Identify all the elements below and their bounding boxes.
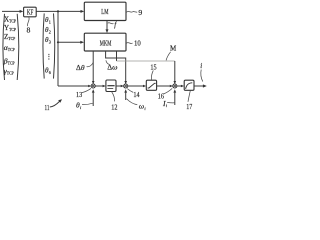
input pose vector (X,Y,Z,alpha,beta,gamma)_TCP [3, 14, 19, 80]
wire: 15 to summing 16 [157, 85, 173, 88]
junction dot MKM branch [57, 41, 59, 43]
svg-text:M: M [170, 44, 177, 52]
leader tilde to label 9 [127, 10, 138, 13]
wire: MKM delta-omega output to summing 14 [106, 51, 127, 84]
wire: 16 to controller 17 [177, 85, 184, 88]
svg-text:⋮: ⋮ [45, 53, 52, 61]
wire: 14 to controller 15 [128, 85, 147, 88]
svg-text:8: 8 [27, 26, 31, 35]
leader to label 17 [188, 91, 190, 102]
svg-text:12: 12 [111, 103, 117, 112]
label omega_i with leader [127, 99, 147, 112]
svg-text:17: 17 [186, 102, 192, 111]
svg-text:10: 10 [134, 38, 141, 47]
controller block 12 (position controller) [106, 80, 116, 92]
wire: LM to MKM with down arrow [106, 21, 109, 34]
wire: summing 13 to controller 12 [95, 85, 106, 88]
wire: 12 to summing 14 [116, 85, 124, 88]
wire: output current i [194, 84, 207, 87]
joint angle vector theta_1..theta_6 [43, 13, 55, 78]
controller block 15 (velocity controller, ramp symbol) [146, 80, 156, 90]
svg-text:11: 11 [45, 103, 50, 112]
wire: joint position feedback theta_i [92, 89, 95, 106]
summing junction 13 [91, 84, 95, 88]
wire: setpoint into summing 13 [58, 85, 91, 88]
svg-text:LM: LM [101, 8, 109, 16]
wire: MKM torque feedforward M to summing 16 [117, 51, 177, 84]
wire: current feedback I_i [173, 89, 176, 105]
junction dot [57, 10, 59, 12]
wire: KF to LM [36, 10, 84, 13]
svg-text:9: 9 [138, 8, 142, 17]
svg-text:1: 1 [49, 20, 51, 25]
leader to label 15 [151, 70, 153, 79]
label 13 with leader [76, 88, 91, 98]
wire: theta setpoint vertical [57, 11, 59, 86]
leader to label 8 [27, 17, 29, 26]
svg-text:2: 2 [49, 30, 51, 35]
label 11 with arrow [45, 99, 63, 112]
label M with leader [166, 44, 177, 60]
svg-text:Δθ: Δθ [76, 63, 85, 72]
summing junction 14 [124, 84, 128, 88]
block MKM (10) [84, 33, 126, 51]
leader to label 12 [112, 92, 115, 102]
svg-text:i: i [200, 62, 202, 70]
block KF (8) [24, 7, 37, 17]
leader tilde to label 10 [127, 42, 133, 45]
label 14 with leader [127, 89, 139, 99]
label theta_i with leader [76, 101, 93, 110]
block LM (9) [84, 2, 126, 20]
svg-text:MKM: MKM [100, 39, 112, 47]
svg-text:13: 13 [76, 90, 82, 99]
label delta-theta with leader [76, 62, 94, 72]
controller block 17 (current controller, saturation curve) [184, 80, 194, 90]
wire: velocity feedback omega_i [124, 89, 127, 100]
leader tilde to label f [108, 23, 114, 24]
svg-text:KF: KF [27, 10, 34, 17]
summing junction 16 [173, 84, 177, 88]
wire: MKM delta-theta output down to summing 13 [92, 51, 95, 84]
svg-text:14: 14 [133, 90, 139, 99]
svg-text:15: 15 [150, 62, 156, 71]
wire: pose vector to KF [2, 10, 23, 13]
label I_i with leader [162, 99, 174, 108]
svg-text:3: 3 [49, 40, 51, 45]
wire: branch to MKM [58, 41, 84, 44]
label delta-omega with leader [106, 60, 118, 71]
svg-text:6: 6 [49, 70, 51, 75]
svg-text:Δω: Δω [107, 62, 118, 71]
label 16 with leader [158, 88, 172, 100]
label i with leader [200, 62, 203, 82]
